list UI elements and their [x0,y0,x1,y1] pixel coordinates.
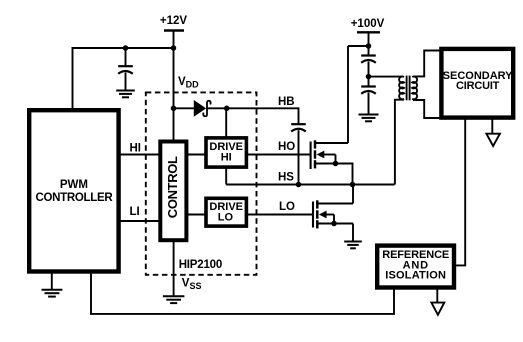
SECONDARY CIRCUIT block [441,49,513,118]
ground (bus caps) [359,115,379,122]
ground (below PWM controller) [42,271,63,297]
transformer T1 [399,76,417,101]
wire +12V vertical down to VDD node [173,31,175,142]
ground (Q2 source) [344,242,362,249]
node VDD junction dot [171,106,177,112]
wire HI [118,154,160,156]
PWM controller block [29,110,118,271]
transistor Q2 (low-side MOSFET) [313,200,353,228]
svg-text:HS: HS [278,171,294,183]
diode D1 (bootstrap, schottky) [194,101,210,116]
wire secondary top to secondary circuit [413,51,442,77]
HI label [130,142,142,154]
node junction above DRIVE HI [224,106,230,112]
node HS at bootstrap cap [296,182,302,188]
ground triangle (secondary circuit) [486,134,500,146]
wire Q2 drain up to HS [352,185,354,204]
CONTROL block [160,142,186,241]
svg-text:+100V: +100V [351,18,385,30]
wire secondary circuit to chassis triangle [491,119,493,135]
transistor Q1 (high-side MOSFET) [311,140,353,185]
node cap midpoint [366,74,372,80]
wire VDD to DRIVE HI top [225,108,227,137]
wire cap to ground [125,73,127,91]
HS label [278,171,294,183]
ground triangle (reference block) [431,303,444,315]
+12V supply bar [164,29,184,31]
HIP2100 label [179,259,222,271]
wire CONTROL bottom to VSS ground [173,240,175,296]
wire CONTROL to DRIVE LO [187,214,205,216]
svg-text:HB: HB [278,96,295,108]
svg-text:LO: LO [218,212,234,224]
wire caps to ground [368,93,370,115]
svg-text:CIRCUIT: CIRCUIT [456,80,500,92]
LI label [130,206,140,218]
svg-text:+12V: +12V [160,15,188,27]
svg-text:HIP2100: HIP2100 [179,259,222,271]
wire diode cathode to HB [207,107,299,109]
wire secondary bottom to secondary circuit [413,100,442,118]
node HS at half-bridge [350,182,356,188]
node junction for decoupling cap [123,45,129,51]
LO label [279,201,295,213]
capacitor C2 (bootstrap) [291,124,306,131]
HO label [278,141,295,153]
wire Q2 source down to ground [352,224,354,242]
wire LO [246,214,314,216]
wire cap branch upper [125,48,127,66]
wire midpoint to transformer primary top [369,76,404,78]
wire DRIVE HI bottom to HS [225,167,227,185]
capacitor C3 (bus upper) [361,56,376,63]
dashed box HIP2100 [146,92,257,274]
VSS label [182,278,202,292]
wire branch to Q1 drain [348,45,369,47]
wire bottom return run [91,271,394,314]
wire bootstrap cap to HS node [298,130,300,184]
wire down to PWM controller top [72,47,74,109]
svg-text:HI: HI [130,142,142,154]
VDD label [178,76,199,90]
svg-text:ISOLATION: ISOLATION [385,270,446,282]
wire diode anode [174,107,196,109]
wire +12V rail left [72,47,174,49]
+100V supply label [351,18,385,30]
DRIVE HI block [206,138,246,167]
wire HB down to bootstrap cap [298,107,300,124]
wire primary bottom to HS [395,100,404,185]
svg-text:HI: HI [221,152,232,164]
svg-text:LI: LI [130,206,140,218]
HB label [278,96,295,108]
+12V supply label [160,15,188,27]
wire +100V down [368,32,370,56]
+100V supply bar [357,31,380,33]
svg-text:CONTROL: CONTROL [165,156,180,218]
ground (below C1) [116,91,135,98]
wire HO [246,154,311,156]
node junction on rail at +12V line [171,45,177,51]
wire Q1 drain to +100V branch [347,46,349,143]
capacitor C4 (bus lower) [361,87,376,94]
REFERENCE AND ISOLATION block [377,246,454,288]
svg-text:LO: LO [279,201,295,213]
capacitor C1 (decoupling +12V) [118,66,133,74]
wire reference block to chassis triangle [436,288,438,303]
wire CONTROL to DRIVE HI [187,154,205,156]
wire LI [118,220,160,222]
svg-text:CONTROLLER: CONTROLLER [35,192,113,204]
wire secondary circuit to reference block [454,119,465,266]
node +100V branch [366,43,372,49]
wire HS run [226,184,395,186]
ground (VSS) [163,296,185,303]
DRIVE LO block [206,198,246,226]
svg-text:HO: HO [278,141,295,153]
wire mid caps [368,62,370,87]
svg-text:PWM: PWM [60,179,88,191]
